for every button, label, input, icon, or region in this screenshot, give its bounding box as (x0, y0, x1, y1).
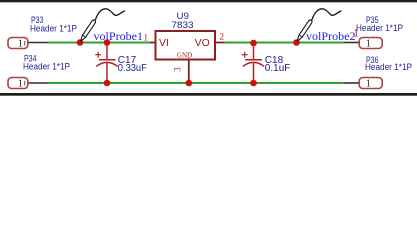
wire: bottom ground net (green) (48, 82, 344, 84)
wire: U9 pin 1 (maroon) (150, 42, 156, 44)
wire: U9 pin 2 (maroon) (215, 42, 225, 44)
svg-text:volProbe1: volProbe1 (94, 29, 144, 43)
regulator U9 body (156, 31, 216, 60)
junction dot (U9 pin3 / ground) (186, 80, 193, 87)
junction dot (probe2 tap) (293, 39, 300, 46)
svg-text:0.1uF: 0.1uF (265, 63, 291, 74)
probe volProbe1 pen icon (79, 9, 125, 42)
svg-text:Header 1*1P: Header 1*1P (30, 24, 77, 35)
svg-text:volProbe2: volProbe2 (306, 29, 356, 43)
svg-text:Header 1*1P: Header 1*1P (23, 61, 70, 72)
junction dot (C18 bottom) (250, 80, 257, 87)
svg-text:1: 1 (366, 78, 371, 89)
junction dot (C18 top) (250, 40, 257, 47)
svg-text:1: 1 (366, 38, 371, 49)
svg-text:GND: GND (177, 52, 192, 60)
sheet border top (0, 0, 417, 2)
wire: top-right net (green) (225, 42, 345, 44)
wire: P35 pin stub (black) (344, 42, 359, 44)
svg-text:VO: VO (195, 37, 210, 49)
svg-text:1: 1 (144, 32, 149, 42)
wire: P34 pin stub (black) (28, 82, 48, 84)
svg-text:7833: 7833 (172, 20, 194, 31)
sheet border bottom (0, 93, 417, 96)
svg-text:Header 1*1P: Header 1*1P (365, 62, 412, 73)
junction dot (C17 top) (104, 39, 111, 46)
svg-text:3: 3 (173, 67, 183, 72)
connector P35 (359, 38, 382, 50)
capacitor C18 (242, 43, 264, 84)
probe volProbe2 pen icon (296, 9, 342, 42)
svg-text:VI: VI (159, 37, 169, 49)
svg-text:1: 1 (18, 38, 23, 49)
junction dot (C17 bottom) (104, 80, 111, 87)
connector P36 (359, 78, 382, 90)
U9 pin 3 (GND) wire (188, 60, 190, 84)
connector P33 (8, 38, 28, 50)
connector P34 (8, 78, 28, 90)
wire: P33 pin stub (black) (28, 42, 48, 44)
junction dot (probe1 tap) (77, 39, 84, 46)
wire: P36 pin stub (black) (344, 82, 359, 84)
svg-text:1: 1 (18, 78, 23, 89)
wire: top-left net (green) (48, 42, 150, 44)
svg-text:2: 2 (220, 32, 225, 42)
svg-text:0.33uF: 0.33uF (118, 63, 147, 74)
svg-text:Header 1*1P: Header 1*1P (356, 23, 403, 34)
capacitor C17 (95, 43, 117, 84)
